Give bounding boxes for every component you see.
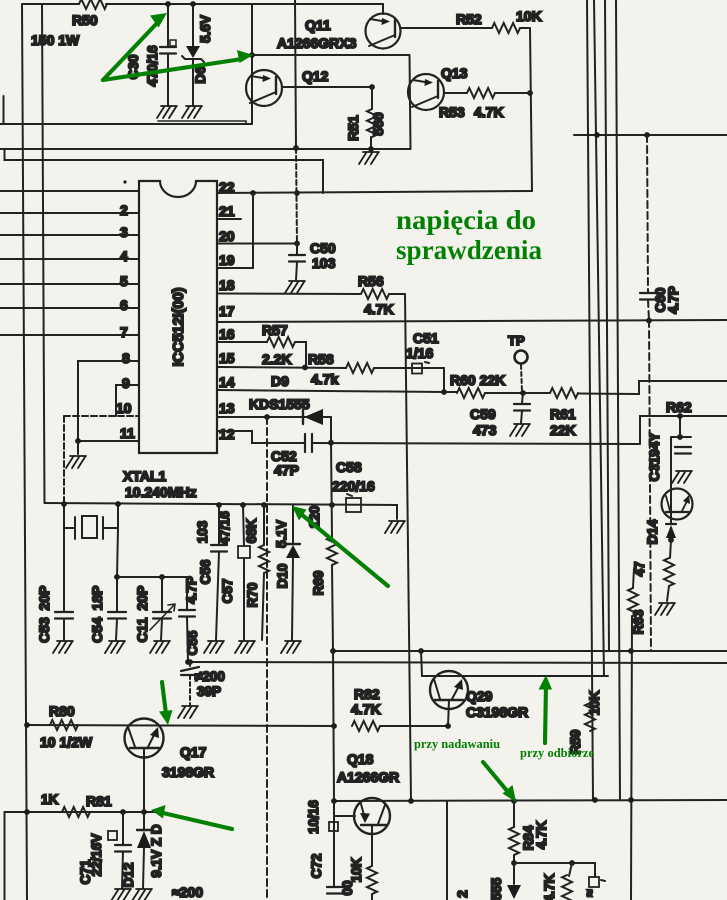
svg-text:R62: R62 <box>666 399 692 415</box>
wire pin 3 <box>0 234 139 236</box>
wire long vertical x406 <box>405 294 411 801</box>
svg-text:1/16: 1/16 <box>406 345 433 361</box>
test point TP <box>515 351 528 364</box>
wire pin 18 <box>217 293 361 296</box>
node R70 <box>261 502 267 508</box>
wire long vertical left <box>22 4 27 900</box>
svg-text:ICC512I(00): ICC512I(00) <box>171 287 187 366</box>
svg-text:14: 14 <box>219 374 235 390</box>
svg-text:sprawdzenia: sprawdzenia <box>396 235 542 265</box>
ground under D10 <box>281 641 301 653</box>
wire Q18 base <box>334 815 355 817</box>
svg-text:R69: R69 <box>311 571 326 596</box>
svg-text:≈200: ≈200 <box>172 884 203 900</box>
svg-text:R50: R50 <box>72 12 98 28</box>
resistor R53 <box>467 88 495 98</box>
wire bus y801 <box>334 800 727 801</box>
resistor R56 <box>361 289 389 299</box>
node D14 bottom <box>668 537 674 543</box>
resistor R57 <box>267 337 295 347</box>
ground pin 8/11 <box>66 456 86 468</box>
node R69 top riser <box>328 440 334 446</box>
svg-text:9: 9 <box>122 375 130 391</box>
resistor R84 4.7K <box>513 801 515 827</box>
svg-text:przy odbiorze: przy odbiorze <box>520 745 594 760</box>
svg-text:6: 6 <box>120 297 128 313</box>
ground under R51 <box>359 152 379 164</box>
node R80 left <box>24 722 30 728</box>
wire long vertical v3 <box>605 0 609 651</box>
svg-text:18: 18 <box>219 277 235 293</box>
svg-text:220/16: 220/16 <box>332 478 375 494</box>
green arrow 4 <box>162 682 166 714</box>
svg-text:150 1W: 150 1W <box>31 32 80 48</box>
ground under C56 <box>204 641 224 653</box>
resistor R69 120 <box>331 442 332 537</box>
svg-text:10: 10 <box>116 400 132 416</box>
svg-text:C56: C56 <box>198 559 213 584</box>
svg-text:22/16V: 22/16V <box>89 834 104 877</box>
pin 1 marker dot <box>123 180 126 183</box>
svg-text:473: 473 <box>473 422 497 438</box>
transistor Q17 <box>125 719 164 758</box>
green arrow 1 <box>103 20 160 80</box>
wire left stub <box>3 96 5 124</box>
svg-text:68K: 68K <box>244 518 259 543</box>
wire crystal bus y504 <box>45 503 398 519</box>
svg-text:4.7K: 4.7K <box>534 820 549 849</box>
ground under C53 <box>53 641 73 653</box>
green arrow 7 <box>545 684 546 743</box>
svg-text:5: 5 <box>120 273 128 289</box>
node pin22 wire <box>294 190 300 196</box>
node C50 <box>294 241 300 247</box>
svg-text:47/16: 47/16 <box>217 511 232 545</box>
svg-text:XTAL1: XTAL1 <box>123 468 167 484</box>
wire left edge vertical bottom <box>4 812 6 900</box>
node Q29 emitter <box>445 723 451 729</box>
capacitor C51 <box>412 364 422 374</box>
svg-text:C58: C58 <box>336 459 362 475</box>
svg-text:D14: D14 <box>645 519 660 544</box>
svg-text:22K: 22K <box>550 422 576 438</box>
svg-text:TP: TP <box>508 333 525 348</box>
svg-text:15: 15 <box>219 350 235 366</box>
ground under C54 <box>105 641 125 653</box>
node R51 top <box>369 84 375 90</box>
ground under D6 <box>182 106 202 118</box>
marker B bottom <box>594 863 596 877</box>
wire vertical x334 mid <box>333 651 334 801</box>
svg-text:47P: 47P <box>274 462 299 478</box>
svg-text:18P: 18P <box>89 586 105 611</box>
resistor R59 10K <box>585 703 595 731</box>
transistor Q29 C3198GR <box>430 671 468 709</box>
svg-text:4.7P: 4.7P <box>666 286 681 314</box>
wire vertical x252 <box>251 4 253 124</box>
wire C52 bus <box>313 443 640 444</box>
wire bus y149 <box>0 148 410 150</box>
svg-text:470/16: 470/16 <box>145 45 160 87</box>
wire long vertical v4 <box>616 0 620 799</box>
node C60 bottom <box>646 318 652 324</box>
svg-text:10/16: 10/16 <box>306 800 321 834</box>
svg-text:2: 2 <box>455 890 470 898</box>
resistor R81 1K <box>62 807 90 817</box>
svg-text:10K: 10K <box>349 857 364 882</box>
wire bus y160 <box>5 149 324 193</box>
wire pin 1 <box>0 190 139 192</box>
wire Q11 to R52 <box>400 27 492 29</box>
svg-text:A1266GR: A1266GR <box>337 769 399 785</box>
wire dashed vertical x649 <box>649 320 651 651</box>
svg-text:4.7k: 4.7k <box>311 371 338 387</box>
svg-text:10K: 10K <box>516 8 542 24</box>
svg-text:Q13: Q13 <box>441 65 468 81</box>
wire long vertical v2 <box>594 0 604 676</box>
svg-text:7: 7 <box>120 324 128 340</box>
svg-text:22: 22 <box>219 179 235 195</box>
svg-text:C59: C59 <box>470 406 496 422</box>
node C55 on bus <box>185 659 191 665</box>
capacitor C52 <box>305 434 312 452</box>
svg-text:1K: 1K <box>41 792 59 807</box>
ground right of C58 <box>385 521 405 533</box>
svg-text:4.7K: 4.7K <box>542 873 557 900</box>
node Q29 collector riser <box>418 648 424 654</box>
ground under C30 <box>157 106 177 118</box>
wire pin 10 <box>64 415 139 417</box>
wire bus corner to R62 line <box>640 416 727 444</box>
svg-text:20: 20 <box>219 228 235 244</box>
capacitor C54 18P <box>117 528 118 577</box>
svg-text:5.1V: 5.1V <box>274 520 289 548</box>
node pin13 branch <box>264 414 270 420</box>
svg-text:2.2K: 2.2K <box>262 351 292 367</box>
wire pin 14 <box>217 390 444 392</box>
wire C54-C11-C55 link <box>117 576 187 578</box>
svg-text:napięcia do: napięcia do <box>396 205 536 235</box>
zener diode D6 5.6V <box>192 4 194 46</box>
node crystal left <box>61 501 67 507</box>
capacitor C58 220/16 <box>346 498 361 512</box>
svg-text:R82: R82 <box>354 686 380 702</box>
svg-text:4.7K: 4.7K <box>351 701 381 717</box>
svg-text:20P: 20P <box>134 586 150 611</box>
wire R62 to D14 block <box>679 416 681 437</box>
wire bus y651 <box>333 650 727 652</box>
capacitor C55 4.7P <box>186 577 188 609</box>
resistor R82 <box>352 721 380 731</box>
IC U1 ICC512I(00) <box>139 181 217 453</box>
svg-text:3198GR: 3198GR <box>162 764 214 780</box>
green arrow 2 <box>103 59 242 80</box>
wire long vertical x267 <box>266 417 268 900</box>
capacitor C30 <box>167 4 169 46</box>
wire pin 19 <box>217 193 253 268</box>
svg-text:A1266GRX3: A1266GRX3 <box>277 35 357 51</box>
svg-text:≈: ≈ <box>582 889 597 897</box>
node Q17 emitter/D12 <box>141 809 147 815</box>
svg-text:R58: R58 <box>308 351 334 367</box>
wire pin 9 <box>116 385 139 416</box>
wire bus y663 <box>190 662 727 663</box>
svg-text:R56: R56 <box>358 273 384 289</box>
capacitor C60 4.7P <box>647 135 648 292</box>
node C56 <box>216 502 222 508</box>
svg-text:103: 103 <box>195 520 210 543</box>
wire to ground pin11 <box>77 441 79 454</box>
svg-text:Q11: Q11 <box>305 17 331 33</box>
wire pin13 corner to bus <box>330 417 332 442</box>
ground under 200/39P cap <box>178 706 198 718</box>
capacitor C57 47/16 <box>243 505 244 546</box>
svg-text:R60 22K: R60 22K <box>450 372 505 388</box>
svg-text:C51: C51 <box>413 330 439 346</box>
svg-text:19: 19 <box>219 252 235 268</box>
svg-text:11: 11 <box>120 425 135 441</box>
wire pin 2 <box>0 212 139 214</box>
wire pin22 net <box>217 191 532 193</box>
wire pin 16 <box>217 341 267 343</box>
svg-text:R52: R52 <box>456 11 482 27</box>
svg-text:R80: R80 <box>49 703 75 719</box>
svg-text:4.7K: 4.7K <box>364 301 394 317</box>
resistor R63 47 <box>633 568 634 588</box>
wire pin 7 <box>0 334 139 336</box>
svg-text:2: 2 <box>120 202 128 218</box>
resistor R58 <box>346 363 374 373</box>
svg-text:C50: C50 <box>310 240 336 256</box>
node v2/y135 <box>594 132 600 138</box>
ground under C11 <box>150 641 170 653</box>
svg-text:4.7P: 4.7P <box>184 576 199 604</box>
wire R61 to right edge <box>578 381 727 394</box>
wire bus y124 <box>0 123 252 125</box>
wire pin 15 <box>217 367 346 368</box>
svg-text:4: 4 <box>120 248 128 264</box>
wire Q13 to R53 <box>444 92 467 94</box>
svg-text:R61: R61 <box>550 406 576 422</box>
node C71 <box>120 809 126 815</box>
wire y863 <box>514 862 595 864</box>
wire long vertical v1 R59 line <box>587 0 593 800</box>
node C30 top <box>165 1 171 7</box>
node D14 top <box>677 434 683 440</box>
transistor Q11 <box>382 4 384 14</box>
trimmer capacitor C11 20P <box>159 574 165 580</box>
svg-text:C72: C72 <box>309 854 324 879</box>
svg-text:R53: R53 <box>439 104 465 120</box>
resistor R50 <box>79 0 107 9</box>
ground small right <box>672 471 692 483</box>
resistor under Q18 10K <box>371 825 373 866</box>
node pin19 riser <box>250 190 256 196</box>
wire right horizontal y135 <box>574 134 727 136</box>
svg-text:R57: R57 <box>262 322 288 338</box>
svg-text:R70: R70 <box>245 583 260 608</box>
wire vertical x447 bottom <box>446 801 448 900</box>
svg-text:D6: D6 <box>193 66 208 84</box>
svg-text:D9: D9 <box>271 373 289 389</box>
zener diode D12 9.1V <box>137 829 151 831</box>
node R57/pin15 <box>302 365 308 371</box>
node crystal right <box>115 501 121 507</box>
crystal XTAL1 10.240MHz <box>82 516 97 538</box>
svg-text:C55: C55 <box>185 630 200 655</box>
svg-text:C53: C53 <box>36 617 52 643</box>
wire Q29 collector line y676 <box>421 651 608 676</box>
svg-text:Q18: Q18 <box>347 751 374 767</box>
green arrow 6 <box>483 762 508 792</box>
wire pin 20 <box>217 243 297 245</box>
capacitor C50 <box>296 244 298 255</box>
node under R84 <box>511 860 517 866</box>
node cap 200/39P <box>187 659 193 665</box>
svg-text:10.240MHz: 10.240MHz <box>125 484 197 500</box>
ground under C50 <box>285 281 305 293</box>
wire pin 5 <box>0 283 139 285</box>
diode bottom edge under R84 <box>513 863 515 884</box>
resistor R52 <box>492 23 520 33</box>
svg-text:17: 17 <box>219 303 235 319</box>
node C60 line top <box>644 132 650 138</box>
wire vertical x64 to crystal <box>63 416 65 504</box>
node R63 <box>628 648 634 654</box>
svg-text:≠200: ≠200 <box>195 669 225 684</box>
svg-text:39P: 39P <box>197 684 221 699</box>
svg-text:4.7K: 4.7K <box>474 104 504 120</box>
green arrow 5 <box>163 813 232 829</box>
node C51 riser <box>441 389 447 395</box>
wire y55 <box>252 54 409 56</box>
wire pin 11 <box>78 440 139 442</box>
node C59 top <box>520 390 526 396</box>
wire ground link y121 <box>158 120 246 122</box>
svg-text:16: 16 <box>219 326 235 342</box>
node D6 top <box>190 1 196 7</box>
wire R81 line <box>5 811 158 813</box>
wire vertical x295 <box>295 0 296 148</box>
svg-text:560: 560 <box>370 112 386 136</box>
svg-text:21: 21 <box>219 203 235 219</box>
svg-text:R81: R81 <box>86 793 112 809</box>
ground under C59 <box>510 424 530 436</box>
svg-text:9.1V Z D: 9.1V Z D <box>149 824 164 878</box>
zener diode D10 5.1V <box>292 505 294 543</box>
wire vertical x410 <box>410 55 411 149</box>
wire pin 8 <box>78 361 139 441</box>
wire vertical x43 <box>42 4 45 503</box>
wire pin 4 <box>0 258 139 260</box>
resistor R70 68K <box>263 505 265 545</box>
svg-text:12: 12 <box>219 426 235 442</box>
ground under C57/R70 <box>235 641 255 653</box>
wire C50 vertical <box>296 148 297 243</box>
svg-text:10 1/2W: 10 1/2W <box>40 734 93 750</box>
ground under R64 <box>655 603 675 615</box>
resistor R80 <box>50 720 78 730</box>
svg-text:R51: R51 <box>345 115 361 141</box>
wire top rail right <box>106 3 383 5</box>
svg-text:8: 8 <box>122 350 130 366</box>
svg-text:13: 13 <box>219 400 235 416</box>
svg-text:47: 47 <box>632 561 647 576</box>
node R69/C58 <box>329 502 335 508</box>
transistor Q12 <box>246 70 282 106</box>
wire pin 12 <box>217 431 304 443</box>
ground under C71 <box>111 889 131 900</box>
resistor R51 <box>371 87 373 109</box>
node pin8/pin11 <box>75 438 81 444</box>
transistor Q13 <box>408 74 444 110</box>
wire pin 6 <box>0 307 139 309</box>
diode D14 <box>666 523 676 525</box>
wire vertical x530 <box>530 28 532 191</box>
svg-text:Q17: Q17 <box>180 744 207 760</box>
resistor R64 <box>670 540 671 558</box>
svg-text:przy nadawaniu: przy nadawaniu <box>414 736 500 751</box>
node x334 column <box>331 723 337 729</box>
svg-text:R63: R63 <box>631 609 646 634</box>
svg-text:3: 3 <box>120 224 128 240</box>
svg-text:D10: D10 <box>275 564 290 589</box>
node R51 bottom <box>368 146 374 152</box>
capacitor C59 <box>522 393 523 403</box>
svg-text:C57: C57 <box>220 579 235 604</box>
svg-text:C11: C11 <box>134 617 150 642</box>
svg-text:Q29: Q29 <box>466 688 493 704</box>
transistor Q18 A1266GR <box>354 798 390 834</box>
ground under D12 <box>132 889 152 900</box>
resistor R60 <box>457 388 485 398</box>
transistor C3194Y <box>662 489 693 520</box>
capacitor 200/39P <box>189 662 191 667</box>
green arrow 3 <box>301 514 388 586</box>
node C54/C11 <box>114 574 120 580</box>
svg-text:555: 555 <box>489 877 504 900</box>
node Q11 base junction <box>249 52 255 58</box>
svg-text:10K: 10K <box>587 690 602 715</box>
svg-text:C3198GR: C3198GR <box>466 704 528 720</box>
svg-text:103: 103 <box>312 255 336 271</box>
svg-text:20P: 20P <box>36 586 52 611</box>
node x295 on y149 bus <box>293 145 299 151</box>
wire pin 13 <box>217 416 331 418</box>
capacitor near C3194Y <box>675 447 691 454</box>
resistor 4.7K bottom <box>569 863 572 876</box>
svg-text:C54: C54 <box>89 617 105 643</box>
capacitor C53 20P <box>63 528 65 611</box>
wire R80-Q17-R82 line <box>27 725 334 726</box>
svg-text:KDS1555: KDS1555 <box>249 396 310 412</box>
wire top rail left <box>22 3 79 5</box>
wire TP to node <box>521 365 522 392</box>
wire Q17 emitter <box>143 748 145 812</box>
wire pin 17 long <box>217 320 727 322</box>
svg-text:5.6V: 5.6V <box>198 15 213 43</box>
capacitor C72 10/16 <box>333 801 335 886</box>
svg-text:C3194Y: C3194Y <box>647 433 662 482</box>
resistor R61 <box>550 388 578 398</box>
capacitor C71 22/16V <box>122 812 124 844</box>
svg-text:Q12: Q12 <box>302 68 329 84</box>
node C57 <box>240 502 246 508</box>
capacitor C56 103 <box>218 505 220 544</box>
node R53 output <box>527 90 533 96</box>
diode D9 KDS1555 <box>302 410 304 424</box>
wire pin 21 stub <box>217 218 241 220</box>
